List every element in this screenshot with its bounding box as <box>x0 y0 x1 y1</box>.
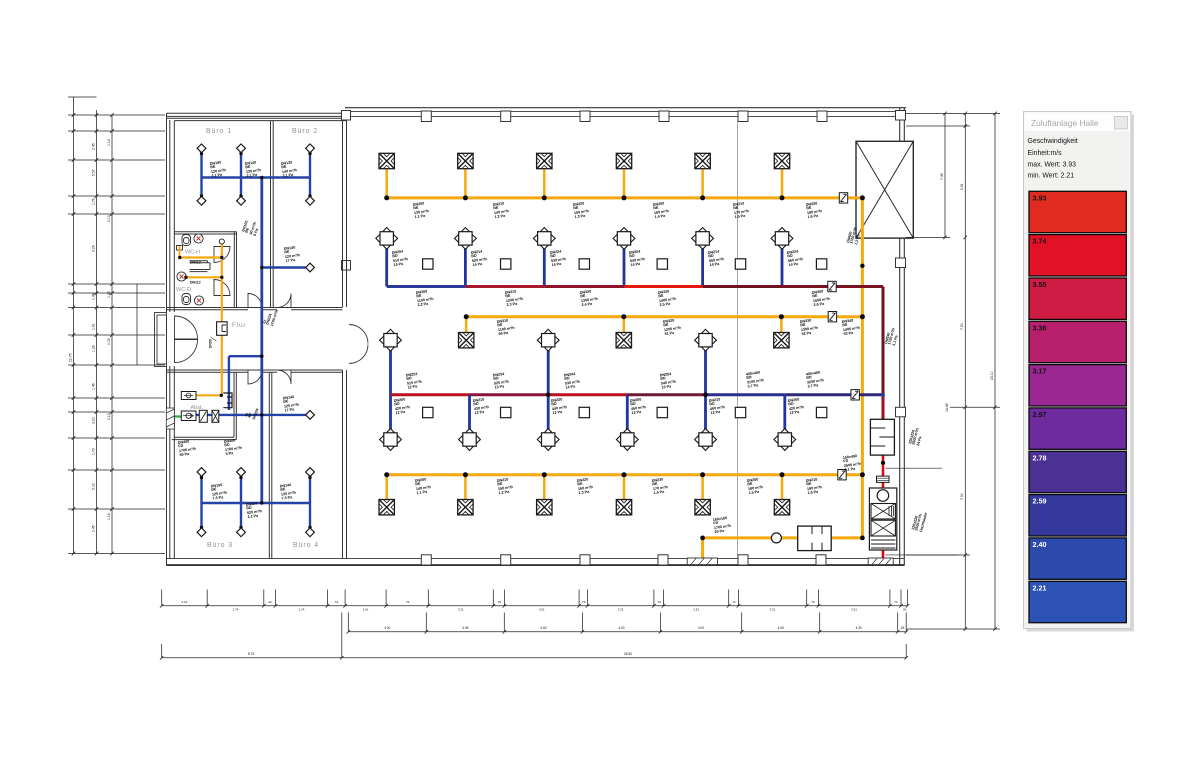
label abst branch <box>283 394 301 412</box>
svg-text:max. Wert: 3.93: max. Wert: 3.93 <box>1028 162 1077 169</box>
legend header <box>1025 113 1131 132</box>
label exhaust 2 <box>911 510 928 532</box>
svg-text:Büro 1: Büro 1 <box>206 128 232 135</box>
svg-text:5.57: 5.57 <box>92 169 96 176</box>
svg-text:Abst.: Abst. <box>191 405 204 411</box>
bottom dimension chains <box>162 590 908 658</box>
label main A 6 <box>806 201 824 219</box>
label riser maroon <box>884 326 900 346</box>
duct yellow intake branch bottom <box>703 538 863 559</box>
label buero2 branch <box>284 245 302 263</box>
left dimension chains <box>68 97 165 554</box>
svg-text:.79: .79 <box>405 600 410 604</box>
svg-text:1.73: 1.73 <box>92 448 96 455</box>
svg-text:.79: .79 <box>581 600 586 604</box>
label main A 5 <box>733 201 751 219</box>
svg-text:Flur: Flur <box>232 322 246 329</box>
label main B 5 <box>812 289 832 308</box>
label main C 3 <box>800 318 820 337</box>
label office stub 3 <box>281 160 299 178</box>
svg-text:1.25: 1.25 <box>107 291 111 298</box>
svg-text:Einheit:m/s: Einheit:m/s <box>1028 150 1063 157</box>
label main E 4 <box>652 477 670 495</box>
Abst silencer blue line <box>181 411 196 421</box>
Abst fire damper bracket <box>223 393 232 408</box>
svg-text:3.51: 3.51 <box>851 607 857 611</box>
svg-text:4.00: 4.00 <box>698 626 704 630</box>
label main C 4 <box>842 318 862 337</box>
svg-text:Geschwindigkeit: Geschwindigkeit <box>1028 138 1078 145</box>
svg-text:2.40: 2.40 <box>1033 540 1047 549</box>
svg-text:Zuluftanlage Halle: Zuluftanlage Halle <box>1031 118 1099 128</box>
label intake duct <box>713 516 733 535</box>
duct blue stubs row D <box>389 395 392 430</box>
Abst damper slash <box>199 410 207 422</box>
svg-text:1.46: 1.46 <box>92 293 96 300</box>
svg-text:8.79: 8.79 <box>248 652 254 656</box>
label main D 4 <box>660 371 678 389</box>
legend box 3.93 <box>1029 191 1126 232</box>
svg-text:28.50: 28.50 <box>624 652 632 656</box>
label main D 3 <box>564 371 582 389</box>
diffusers row D swirl <box>380 429 402 451</box>
legend panel shadow <box>1027 115 1135 632</box>
label main A 1 <box>413 201 431 219</box>
label corridor riser <box>262 306 279 327</box>
label buero3 stub 1 <box>211 482 229 500</box>
label main D 1 <box>406 371 424 389</box>
svg-text:1.14: 1.14 <box>107 513 111 520</box>
label riser yellow <box>846 225 862 245</box>
intake louvre bottom wall <box>687 558 717 565</box>
legend box 2.21 <box>1029 581 1126 622</box>
svg-text:3.55: 3.55 <box>1033 280 1047 289</box>
diffusers row E xboxes <box>379 500 394 515</box>
svg-text:2.21: 2.21 <box>1033 583 1047 592</box>
duct red exhaust riser <box>882 395 885 420</box>
svg-text:3.93: 3.93 <box>1033 193 1047 202</box>
svg-text:3.74: 3.74 <box>1033 237 1047 246</box>
svg-text:2.59: 2.59 <box>1033 497 1047 506</box>
svg-text:min. Wert: 2.21: min. Wert: 2.21 <box>1028 173 1075 180</box>
duct maroon riser from main B <box>882 287 885 395</box>
interior walls office block <box>167 120 738 559</box>
label row D stub 1 <box>394 397 412 415</box>
svg-text:WC-D: WC-D <box>176 287 191 293</box>
duct Abst branch <box>196 414 306 416</box>
svg-text:3.36: 3.36 <box>1033 323 1047 332</box>
legend box 3.55 <box>1029 278 1126 319</box>
svg-text:2.61: 2.61 <box>363 607 369 611</box>
svg-text:2.19: 2.19 <box>181 600 187 604</box>
legend panel <box>1024 112 1132 629</box>
duct green intake <box>169 415 182 417</box>
svg-text:1.46: 1.46 <box>92 383 96 390</box>
svg-text:16.48: 16.48 <box>945 403 949 412</box>
svg-text:5.91: 5.91 <box>960 183 964 190</box>
svg-text:7.50: 7.50 <box>960 323 964 330</box>
label row D stub 6 <box>788 397 806 415</box>
right dimension chains <box>906 113 1000 629</box>
diffusers row A xboxes <box>379 153 394 168</box>
duct office main riser <box>260 178 263 504</box>
svg-text:.51: .51 <box>334 600 339 604</box>
duct yellow main A <box>387 196 863 199</box>
svg-text:Büro 4: Büro 4 <box>293 542 319 549</box>
intake fan circle <box>771 533 781 543</box>
svg-text:2.13: 2.13 <box>107 413 111 420</box>
duct blue drops row C to main D <box>389 349 392 395</box>
duct blue drops row B <box>385 248 388 287</box>
label row B drop 6 <box>787 249 805 267</box>
svg-text:2.74: 2.74 <box>233 607 239 611</box>
label main C 2 <box>663 318 683 337</box>
WC fixtures <box>177 234 204 305</box>
svg-text:.74: .74 <box>731 600 736 604</box>
svg-text:4.00: 4.00 <box>618 626 624 630</box>
svg-text:.79: .79 <box>810 600 815 604</box>
label row B drop 3 <box>550 249 568 267</box>
door arcs <box>155 247 369 385</box>
svg-text:7.49: 7.49 <box>940 173 944 180</box>
svg-text:Büro 2: Büro 2 <box>292 128 318 135</box>
label main B 2 <box>505 289 525 308</box>
svg-text:2.97: 2.97 <box>1033 410 1047 419</box>
svg-text:Büro 3: Büro 3 <box>207 542 233 549</box>
label dn400 b <box>224 438 244 457</box>
flex connector <box>877 476 890 482</box>
svg-text:2.78: 2.78 <box>1033 453 1047 462</box>
label buero3 main <box>246 501 264 519</box>
svg-text:.25: .25 <box>900 626 905 630</box>
svg-text:2.13: 2.13 <box>107 215 111 222</box>
legend header button <box>1115 117 1128 130</box>
label main E 2 <box>497 477 515 495</box>
legend box 3.17 <box>1029 365 1126 406</box>
label main A 4 <box>653 201 671 219</box>
label main A 3 <box>573 201 591 219</box>
label row B drop 5 <box>708 249 726 267</box>
svg-text:WC-H: WC-H <box>185 250 200 256</box>
svg-text:3.26: 3.26 <box>92 245 96 252</box>
svg-text:3.51: 3.51 <box>539 607 545 611</box>
svg-text:.42: .42 <box>268 600 273 604</box>
svg-text:4.30: 4.30 <box>856 626 862 630</box>
duct yellow stubs row E <box>385 475 388 500</box>
legend box 2.59 <box>1029 495 1126 536</box>
duct branch to Buero2 diffuser <box>262 266 306 268</box>
label dn400 a <box>178 439 198 458</box>
svg-text:3.17: 3.17 <box>1033 367 1047 376</box>
duct yellow stubs row C <box>465 317 468 333</box>
label row B drop 1 <box>392 249 410 267</box>
legend box 2.40 <box>1029 538 1126 579</box>
svg-text:.74: .74 <box>893 600 898 604</box>
svg-text:.79: .79 <box>497 600 502 604</box>
label office stub 1 <box>210 160 228 178</box>
silencer box exhaust <box>870 419 894 455</box>
label row D stub 4 <box>630 397 648 415</box>
AHU unit top right <box>856 141 913 238</box>
label main C 1 <box>497 318 517 337</box>
diffusers row B swirl <box>376 228 398 250</box>
svg-text:22.75: 22.75 <box>69 353 73 362</box>
svg-text:.79: .79 <box>657 600 662 604</box>
label row B drop 4 <box>629 249 647 267</box>
label main D duct 1 <box>746 370 766 389</box>
svg-text:3.51: 3.51 <box>693 607 699 611</box>
svg-text:2.45: 2.45 <box>92 143 96 150</box>
label main D duct 2 <box>806 370 826 389</box>
duct yellow main E <box>387 473 863 476</box>
intake louvre left wall <box>166 408 174 429</box>
svg-text:1.61: 1.61 <box>92 323 96 330</box>
label row D stub 3 <box>551 397 569 415</box>
label main E 3 <box>577 477 595 495</box>
wall pillars <box>342 111 906 566</box>
label main E 5 <box>747 477 765 495</box>
svg-text:5.02: 5.02 <box>92 483 96 490</box>
label abst riser <box>244 404 260 420</box>
svg-text:3.21: 3.21 <box>770 607 776 611</box>
label main B 4 <box>658 289 678 308</box>
label row B drop 2 <box>471 249 489 267</box>
svg-text:1.76: 1.76 <box>92 198 96 205</box>
svg-text:4.00: 4.00 <box>384 626 390 630</box>
svg-text:7.50: 7.50 <box>960 493 964 500</box>
label main B 3 <box>580 289 600 308</box>
duct yellow vertical riser right <box>861 198 864 538</box>
svg-text:4.50: 4.50 <box>540 626 546 630</box>
label row D stub 2 <box>473 397 491 415</box>
svg-text:3.20: 3.20 <box>92 417 96 424</box>
svg-text:4.05: 4.05 <box>778 626 784 630</box>
duct main D velocity colored <box>391 393 470 396</box>
svg-text:DN112: DN112 <box>190 261 201 265</box>
Abst silencer yellow line <box>181 392 196 400</box>
label main E 6 <box>806 477 824 495</box>
duct yellow stubs row A <box>385 169 388 198</box>
svg-text:DN50: DN50 <box>209 339 213 348</box>
label exhaust 1 <box>908 426 924 446</box>
svg-text:1.05: 1.05 <box>107 338 111 345</box>
exhaust louvre bottom wall <box>868 558 893 565</box>
duct corridor branch <box>229 356 262 410</box>
Abst damper X <box>212 410 219 422</box>
legend box 2.78 <box>1029 451 1126 492</box>
svg-text:4.05: 4.05 <box>462 626 468 630</box>
label main D 2 <box>493 371 511 389</box>
svg-text:1.26: 1.26 <box>92 345 96 352</box>
duct Buero3/4 branch <box>202 502 311 505</box>
AHU fan unit stack <box>869 488 896 550</box>
label buero3 stub 2 <box>280 482 298 500</box>
label main E 1 <box>415 477 433 495</box>
duct WC yellow <box>221 243 223 395</box>
svg-text:2.45: 2.45 <box>92 525 96 532</box>
legend box 3.74 <box>1029 235 1126 276</box>
label main A 2 <box>493 201 511 219</box>
blue tee mark main D <box>881 393 884 396</box>
svg-text:1.14: 1.14 <box>107 139 111 146</box>
label silencer duct <box>843 454 863 473</box>
label main B 1 <box>416 289 436 308</box>
label wc riser <box>241 218 261 236</box>
label row D stub 5 <box>709 397 727 415</box>
duct yellow main C <box>466 315 863 318</box>
building outer walls <box>167 108 907 566</box>
svg-text:2.74: 2.74 <box>299 607 305 611</box>
duct main B velocity colored <box>387 285 466 288</box>
svg-text:23.10: 23.10 <box>990 371 994 380</box>
office diamond diffusers <box>197 144 206 153</box>
svg-text:.25: .25 <box>902 607 907 611</box>
svg-text:3.21: 3.21 <box>458 607 464 611</box>
duct office Buero1/2 branch <box>202 176 311 179</box>
interior columns <box>423 259 827 418</box>
svg-text:3.21: 3.21 <box>618 607 624 611</box>
diffusers row C <box>380 329 402 351</box>
inline dampers <box>839 193 847 203</box>
svg-text:DN112: DN112 <box>190 281 201 285</box>
fire damper corridor <box>217 322 228 336</box>
legend box 3.36 <box>1029 321 1126 362</box>
label office stub 2 <box>245 160 263 178</box>
legend box 2.97 <box>1029 408 1126 449</box>
leader lines <box>886 468 959 555</box>
intake silencer <box>798 526 832 551</box>
